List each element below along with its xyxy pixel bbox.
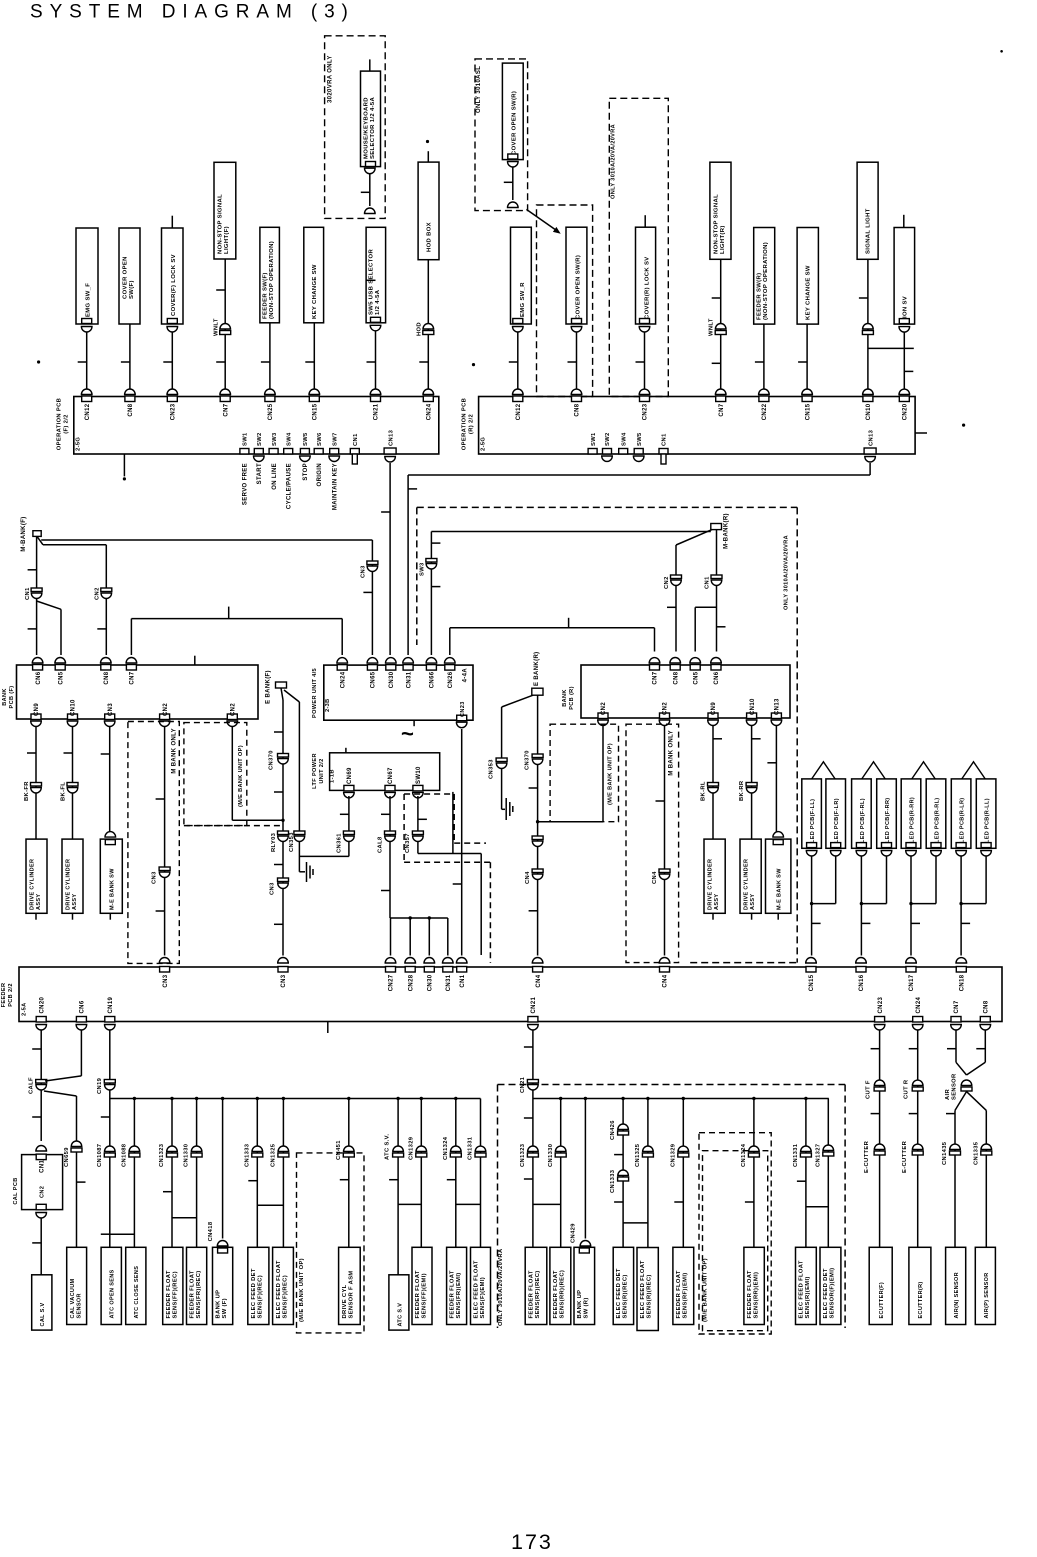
svg-text:SENS(FR)(EMI): SENS(FR)(EMI) [456,1272,462,1318]
triangle lamp symbol [962,762,985,779]
svg-text:CAL PCB: CAL PCB [13,1177,19,1204]
inline connector CN370 [532,754,543,758]
box EMG SW_F [76,228,98,324]
svg-text:2-5A: 2-5A [22,1002,28,1016]
svg-text:CN19: CN19 [108,996,114,1013]
wire signal light to ion sv crossover [868,347,914,349]
box LED PCB(R-LL) [976,779,996,848]
svg-text:CALF: CALF [29,1077,35,1094]
svg-text:SW1: SW1 [243,432,249,446]
svg-text:SW5 USB SELECTOR: SW5 USB SELECTOR [369,249,375,315]
feeder pcb 2/2 box [19,967,1002,1022]
svg-text:CN2: CN2 [39,1186,45,1198]
svg-text:CUT F: CUT F [866,1080,872,1099]
svg-text:CN1324: CN1324 [443,1136,449,1160]
connector CN13 on operation pcb (R) bottom [864,448,876,454]
svg-text:SENS(F)(REC): SENS(F)(REC) [282,1275,288,1319]
port CN23 on power unit bottom [457,715,467,721]
svg-text:M BANK ONLY: M BANK ONLY [669,730,675,776]
wire dome below LED PCB(F-LR) [830,851,841,856]
wire LED pair 2 junction to feeder port [860,856,862,956]
wire LED pair 4 junction to feeder port [960,856,962,956]
svg-text:CN7: CN7 [719,403,725,416]
wire NON-STOP(F); inline connector WNLT [224,259,226,392]
wire feeder CN6 joins CALF [80,1030,82,1076]
svg-text:CN357: CN357 [405,833,411,853]
svg-text:CN15: CN15 [809,974,815,991]
svg-text:CN15: CN15 [313,403,319,420]
svg-text:CN65: CN65 [371,671,377,688]
dashed box ONLY 3010A/20VA/20VRA (top right) [609,98,668,396]
svg-text:M-E BANK SW: M-E BANK SW [109,868,115,910]
svg-text:KEY CHANGE SW: KEY CHANGE SW [312,264,318,319]
operation pcb (F) box [74,397,439,455]
wire feeder CN23; inline CUT F and E-CUTTER [879,1030,881,1248]
svg-text:CN361: CN361 [336,833,342,853]
box LED PCB(F-RR) [877,779,897,848]
svg-text:CN15: CN15 [805,403,811,420]
svg-text:CN429: CN429 [571,1223,577,1243]
svg-text:CN24: CN24 [916,996,922,1013]
svg-text:CN30: CN30 [428,974,434,991]
wire CN2 inline to CN8 port [105,599,107,655]
triangle lamp symbol [912,762,935,779]
svg-text:CN7: CN7 [223,403,229,416]
wire COVER OPEN SW(F) to CN8 [129,324,131,392]
svg-text:CN1327: CN1327 [815,1144,821,1167]
svg-text:CN5: CN5 [693,671,699,684]
box COVER(F) LOCK SV [162,228,184,324]
ports CN12 CN8 CN23 CN7 CN25 CN15 CN21 CN24 on operation pcb (F) [82,396,92,402]
svg-text:SELECTOR 1/2 4-5A: SELECTOR 1/2 4-5A [370,96,376,159]
svg-text:SENS(RF)(REC): SENS(RF)(REC) [535,1270,541,1318]
wire; inline CN1333 (F) [256,1099,258,1248]
wire bank pcb (F) CN2 right to RLY03 junction [231,727,233,820]
svg-text:DRIVE CYLINDER: DRIVE CYLINDER [743,859,749,910]
svg-text:CN2: CN2 [663,702,669,715]
wire M-BANK(R) to CN1 inline [716,530,718,575]
svg-text:SW4: SW4 [621,432,627,446]
svg-text:ECUTTER(F): ECUTTER(F) [879,1282,885,1319]
box M-E BANK SW (F) [100,839,122,913]
svg-text:HOD BOX: HOD BOX [427,222,433,252]
svg-text:CN1323: CN1323 [159,1143,165,1167]
svg-text:CAL S.V: CAL S.V [40,1302,46,1326]
connector M-BANK(R) [711,524,722,530]
chassis ground (right) [505,798,507,820]
svg-text:SW(F): SW(F) [129,280,135,299]
svg-text:(F) 2/2: (F) 2/2 [64,414,70,434]
svg-text:E BANK(F): E BANK(F) [266,670,272,704]
ports CN24 CN65 CN30 CN31 CN66 CN26 on power unit top [337,665,347,671]
svg-text:SW5: SW5 [303,432,309,446]
svg-text:CN23: CN23 [460,701,466,717]
svg-text:CN19: CN19 [97,1077,103,1094]
svg-text:SENS(RR)(EMI): SENS(RR)(EMI) [753,1272,759,1319]
svg-text:CN21: CN21 [374,403,380,420]
svg-text:SW3: SW3 [420,562,426,576]
svg-text:CN1329: CN1329 [670,1143,676,1167]
svg-text:PCB 2/2: PCB 2/2 [8,983,14,1007]
svg-text:CN3: CN3 [281,974,287,987]
svg-text:ATC S.V.: ATC S.V. [385,1134,391,1160]
box ECUTTER(F) [869,1247,892,1324]
wire KEY CHANGE SW (R) to CN15 [806,324,808,392]
svg-text:CN8: CN8 [128,403,134,416]
svg-text:CN13: CN13 [775,698,781,715]
svg-text:CN1331: CN1331 [468,1136,474,1160]
svg-text:POWER UNIT 4/5: POWER UNIT 4/5 [312,668,318,718]
svg-text:SW5: SW5 [637,432,643,446]
svg-text:M BANK ONLY: M BANK ONLY [172,728,178,774]
svg-text:STOP: STOP [303,463,309,481]
svg-text:AIR: AIR [945,1089,951,1100]
svg-text:FEEDER FLOAT: FEEDER FLOAT [450,1270,456,1318]
connector CN13 on operation pcb (F) bottom [384,448,396,454]
ports on feeder pcb bottom edge [36,1017,46,1023]
svg-text:CN24: CN24 [340,671,346,688]
wire power unit CN26 to bank pcb (R) CN7 [449,628,451,655]
sensor bus 1 horizontal [110,1098,481,1100]
svg-text:LTF POWER: LTF POWER [312,753,318,789]
inline connector CN353 (F) [294,831,305,835]
box ION SV [894,228,915,325]
svg-text:BANK: BANK [562,689,568,707]
wire CALF branch to CN659 [44,1091,77,1096]
svg-text:1/2 4-5A: 1/2 4-5A [375,289,381,315]
svg-text:SW10: SW10 [416,766,422,784]
wire; inline CN451 to DRIVE CYL SENSOR F ASM [348,1099,350,1248]
svg-text:CN1435: CN1435 [942,1141,948,1165]
wire to ATC CLOSE SENS; inline CN1088 [133,1099,135,1248]
inline connector CN1435 [950,1144,961,1149]
sensor bus 2 horizontal [533,1098,829,1100]
svg-text:ATC OPEN SENS: ATC OPEN SENS [110,1269,116,1318]
wire CN1 inline to CN5/CN6 ports [36,599,38,655]
wire dome below LED PCB(R-LR) [956,851,967,857]
wire bank pcb (F) CN10; inline connector BK-FL [72,727,74,839]
svg-text:FEEDER: FEEDER [1,983,7,1008]
svg-text:CN1330: CN1330 [548,1144,554,1167]
svg-text:CN2: CN2 [601,702,607,715]
box ELEC FEED DET SENS(F)(REC) [248,1247,269,1324]
svg-text:LED PCB(F-LR): LED PCB(F-LR) [834,798,840,843]
svg-text:CN23: CN23 [171,403,177,420]
triangle lamp symbol [862,762,885,779]
wire COVER(R) LOCK SV to CN23 [639,327,650,332]
svg-text:ONLY 3010A/20VA/20VRA: ONLY 3010A/20VA/20VRA [611,124,617,199]
box ELEC FEED DET SENSOR(F)(EMI) [820,1247,841,1324]
box LED PCB(R-RR) [901,779,921,848]
wire M-BANK(F) to CN1 inline [36,536,38,588]
svg-text:SW2: SW2 [605,432,611,446]
svg-text:CN5: CN5 [58,671,64,684]
svg-text:FEEDER FLOAT: FEEDER FLOAT [553,1270,559,1318]
svg-text:ONLY 3010A/20VA/20VRA: ONLY 3010A/20VA/20VRA [784,535,790,610]
wire RLY03 to feeder pcb CN3; inline connector CN3 [282,842,284,956]
dashed box M BANK ONLY (right) [626,724,679,962]
wire bus2 end; inline CN1327 [827,1099,829,1248]
svg-text:CN1330: CN1330 [184,1144,190,1167]
svg-text:CN6: CN6 [36,671,42,684]
box DRIVE CYLINDER ASSY (R right) [740,839,761,913]
svg-text:FEEDER SW(R): FEEDER SW(R) [757,273,763,320]
svg-text:CN23: CN23 [643,403,649,420]
svg-text:ASSY: ASSY [714,894,720,910]
svg-text:MOUSE/KEYBOARD: MOUSE/KEYBOARD [363,97,369,159]
dashed box (M/E BANK UNIT OP) (left) [184,723,247,826]
svg-text:KEY CHANGE SW: KEY CHANGE SW [806,265,812,320]
svg-text:UNIT 2/2: UNIT 2/2 [319,758,325,783]
svg-text:CN1325: CN1325 [271,1143,277,1167]
svg-text:LED PCB(R-LR): LED PCB(R-LR) [960,798,966,844]
svg-text:BANK: BANK [2,688,8,706]
box ELEC FEED FLOAT SENS(F)(REC) [273,1247,294,1324]
box DRIVE CYL SENSOR F ASM [339,1247,361,1324]
dashed box 3020VRA ONLY [325,36,386,219]
svg-text:MAINTAIN KEY: MAINTAIN KEY [332,463,338,510]
svg-text:CN1: CN1 [353,433,359,446]
svg-text:FEEDER FLOAT: FEEDER FLOAT [676,1270,682,1318]
svg-text:ELEC FEED DET: ELEC FEED DET [616,1268,622,1318]
svg-text:BK-FR: BK-FR [24,781,30,801]
svg-text:COVER OPEN SW(R): COVER OPEN SW(R) [512,91,518,155]
svg-text:NON-STOP SIGNAL: NON-STOP SIGNAL [713,194,719,254]
svg-text:CN6: CN6 [80,1000,86,1013]
svg-text:M-E BANK SW: M-E BANK SW [777,868,783,910]
index dots right [472,363,475,366]
svg-text:CN3: CN3 [108,703,114,716]
svg-text:CN10: CN10 [866,403,872,420]
svg-text:LED PCB(R-RR): LED PCB(R-RR) [909,797,915,843]
wire; inline CN1330 (F) [196,1099,198,1248]
svg-text:CN370: CN370 [269,750,275,770]
box COVER(R) LOCK SV [636,227,656,324]
bank pcb (R) box [581,665,790,718]
svg-text:AIR(P) SENSOR: AIR(P) SENSOR [984,1272,990,1318]
power unit box [324,665,473,720]
svg-text:E-CUTTER: E-CUTTER [902,1140,908,1173]
LTF power unit box [330,753,440,791]
box FEEDER FLOAT SENS(FF)(REC) [163,1247,183,1324]
svg-text:BK-RL: BK-RL [701,781,707,801]
svg-text:SENS(R)(EMI): SENS(R)(EMI) [805,1276,811,1318]
box CAL VACUUM SENSOR [67,1247,87,1324]
svg-text:CN10: CN10 [750,698,756,715]
wire; inline CN1325 (R) [647,1099,649,1248]
svg-text:CN1325: CN1325 [635,1143,641,1167]
svg-text:ELEC FEED FLOAT: ELEC FEED FLOAT [640,1260,646,1318]
svg-text:SENS(F)(REC): SENS(F)(REC) [258,1275,264,1319]
svg-text:CN13: CN13 [388,429,394,446]
box BANK UP SW (F) [213,1247,233,1324]
svg-text:M-BANK(F): M-BANK(F) [21,516,27,551]
wire FEEDER SW(F) to CN25 [269,323,271,392]
wire to BANK UP SW (R); connector CN429 [584,1099,586,1239]
ports CN9 CN10 CN3 CN2 CN2 on bank pcb (F) bottom [31,714,41,720]
box HOD BOX [418,162,439,260]
connector E BANK(R) [532,688,543,695]
dashed box M BANK ONLY (left) [128,722,179,964]
svg-text:CN418: CN418 [208,1221,214,1241]
wire; inline ATC S.V. [397,1099,399,1275]
wire COVER OPEN SW(R) to CN8 [571,327,582,332]
svg-text:CN7: CN7 [653,671,659,684]
wire dome below LED PCB(F-LL) [806,851,817,857]
box FEEDER FLOAT SENS(RR)(REC) [550,1247,571,1324]
svg-text:CN9: CN9 [34,703,40,716]
wire; inline CN1330 (R) [560,1099,562,1248]
svg-text:LED PCB(R-RL): LED PCB(R-RL) [934,798,940,844]
svg-text:E BANK(R): E BANK(R) [534,652,540,686]
switch row SW1 SW2 SW4 SW5 on operation pcb (R) bottom [588,449,597,455]
svg-text:1-1B: 1-1B [330,769,336,783]
box SW5 USB SELECTOR 1/2 4-5A [366,227,386,322]
wire CN67; inline connector CAL8 down to feeder pcb [389,796,391,918]
svg-text:CN1331: CN1331 [793,1143,799,1167]
wire bank pcb (R) CN9; inline connector BK-RL [712,726,714,839]
wire cal pcb CN2 to CAL S.V [36,1213,47,1218]
wire dome below LED PCB(R-RL) [931,851,942,857]
svg-text:2-3B: 2-3B [325,698,331,712]
wire bank pcb (R) CN13 to M-E BANK SW (R) [775,726,777,837]
svg-text:CN67: CN67 [388,767,394,784]
wire CAL8 to CN27/CN28/CN30/CN31 feeder ports [390,917,448,919]
wire HOD BOX; inline connector HOD [427,260,429,392]
box FEEDER FLOAT SENS(RF)(EMI) [673,1247,694,1324]
dashed box around COVER OPEN SW(R) [537,205,593,397]
wire mouse/keyboard selector [369,59,371,71]
svg-text:CN4: CN4 [663,974,669,987]
svg-text:CN7: CN7 [954,1000,960,1013]
svg-text:SW (R): SW (R) [584,1297,590,1318]
svg-text:CN3: CN3 [163,974,169,987]
ports CN69 CN67 SW10 on LTF power unit bottom [344,785,354,791]
svg-text:173: 173 [511,1530,553,1554]
svg-text:PCB (F): PCB (F) [9,686,15,709]
svg-text:SYSTEM DIAGRAM (3): SYSTEM DIAGRAM (3) [30,2,355,23]
svg-text:CN28: CN28 [408,974,414,991]
stub below feeder pcb top-left area [327,1022,329,1034]
svg-text:CN1324: CN1324 [741,1143,747,1167]
svg-text:ON LINE: ON LINE [272,463,278,490]
svg-text:COVER(R) LOCK SV: COVER(R) LOCK SV [645,256,651,319]
wire CN370 column down to feeder pcb CN4; inline connectors [537,765,539,956]
wire bank pcb (F) CN9; inline connector BK-FR [35,727,37,839]
wire; inline CN1323 (F) [171,1099,173,1248]
svg-text:LED PCB(F-RR): LED PCB(F-RR) [885,798,891,844]
box ELEC FEED DET SENS(R)(REC) [613,1247,633,1324]
svg-text:LED PCB(F-LL): LED PCB(F-LL) [810,799,816,843]
svg-text:CN10: CN10 [71,699,77,716]
svg-text:CN353: CN353 [489,759,495,779]
svg-text:SENS(R)(REC): SENS(R)(REC) [647,1274,653,1318]
svg-text:CN20: CN20 [903,403,909,420]
svg-text:SENS(FF)(REC): SENS(FF)(REC) [172,1271,178,1318]
svg-text:FEEDER FLOAT: FEEDER FLOAT [529,1270,535,1318]
box FEEDER FLOAT SENS(FR)(EMI) [447,1247,467,1324]
svg-text:M-BANK(R): M-BANK(R) [723,513,729,549]
box LED PCB(F-RL) [852,779,872,848]
svg-text:CN66: CN66 [430,671,436,688]
svg-text:DRIVE CYLINDER: DRIVE CYLINDER [65,859,71,910]
svg-text:DRIVE CYL: DRIVE CYL [342,1284,348,1318]
box ELEC FEED FLOAT SENS(R)(EMI) [796,1247,817,1324]
stub right edge of operation pcb (R) [915,432,927,434]
svg-text:SW7: SW7 [332,432,338,446]
svg-text:BK-FL: BK-FL [61,782,67,801]
svg-text:DRIVE CYLINDER: DRIVE CYLINDER [707,859,713,910]
wire feeder CN24; inline CUT R and E-CUTTER [917,1030,919,1248]
wire CN353 (R) to chassis ground [501,769,503,809]
wire CN69; inline connector CN361 to chassis ground [348,796,350,831]
svg-text:CN25: CN25 [268,403,274,420]
svg-text:(M/E BANK UNIT OP): (M/E BANK UNIT OP) [703,1258,709,1322]
svg-text:4-4A: 4-4A [463,668,469,683]
svg-text:CN20: CN20 [39,996,45,1013]
dashed box ONLY 3010A/20VA/20VRA (bottom sensors) [498,1084,846,1086]
svg-text:SENS(FF)(EMI): SENS(FF)(EMI) [422,1273,428,1318]
inline connector RLY03 [278,831,289,835]
svg-text:BK-RR: BK-RR [739,780,745,801]
svg-text:2-5G: 2-5G [481,437,487,451]
svg-text:(NON-STOP OPERATION): (NON-STOP OPERATION) [269,241,275,319]
svg-text:CN8: CN8 [984,1000,990,1013]
wire dome below LED PCB(F-RL) [856,851,867,857]
svg-text:SENS(FR)(REC): SENS(FR)(REC) [196,1270,202,1318]
box ATC OPEN SENS [101,1247,121,1324]
wire; inlines CN426 and CN1333 (R) [622,1099,624,1248]
svg-text:CN1333: CN1333 [610,1169,616,1193]
svg-text:FEEDER FLOAT: FEEDER FLOAT [190,1270,196,1318]
svg-text:CN2: CN2 [231,703,237,716]
svg-text:CN353: CN353 [289,832,295,852]
wire CN13(F) down to power unit CN30 [389,463,391,655]
wire COVER(F) LOCK SV to CN23 [167,327,178,332]
dashed box around CN357 (M/E BANK UNIT OP) [404,793,454,795]
svg-text:CN1323: CN1323 [520,1143,526,1167]
wire CN659 to CAL VACUUM SENSOR [76,1152,78,1248]
svg-text:CAL VACUUM: CAL VACUUM [70,1278,76,1318]
svg-text:CN1: CN1 [25,587,31,600]
svg-text:ASSY: ASSY [72,894,78,910]
svg-text:CAL8: CAL8 [378,836,384,853]
svg-text:ASSY: ASSY [36,894,42,910]
dashed box (M/E BANK UNIT OP) bottom-left [297,1153,365,1333]
svg-text:ATC S.V: ATC S.V [397,1303,403,1327]
wire dome below LED PCB(F-RR) [881,851,892,857]
box KEY CHANGE SW (F) [304,227,324,322]
wire CN21 column; inline CN1323 (R) [532,1099,534,1248]
svg-text:CN4: CN4 [525,871,531,884]
switch row SW1-SW7 CN1 CN13 on operation pcb (F) bottom [240,449,249,455]
connector E BANK(F) [276,682,287,688]
wire USB SELECTOR to CN21 [370,325,381,331]
ports CN2 CN2 CN9 CN10 CN13 on bank pcb (R) bottom [598,713,608,719]
wire M-BANK(R) to CN2 inline [676,530,712,545]
svg-text:CN3: CN3 [152,871,158,884]
wire bank pcb (F) CN3 to M-E BANK SW [109,727,111,837]
svg-text:EMG SW_R: EMG SW_R [520,282,526,317]
svg-text:CN1333: CN1333 [244,1143,250,1167]
svg-text:CN8: CN8 [673,671,679,684]
wire CN1 inline to CN5/CN6 ports [716,586,718,652]
svg-text:CN21: CN21 [531,996,537,1013]
stub below operation pcb (F) with dot [123,454,125,476]
svg-text:CN1087: CN1087 [97,1144,103,1167]
svg-text:(M/E BANK UNIT OP): (M/E BANK UNIT OP) [608,743,614,805]
svg-text:SENSOR: SENSOR [77,1293,83,1318]
